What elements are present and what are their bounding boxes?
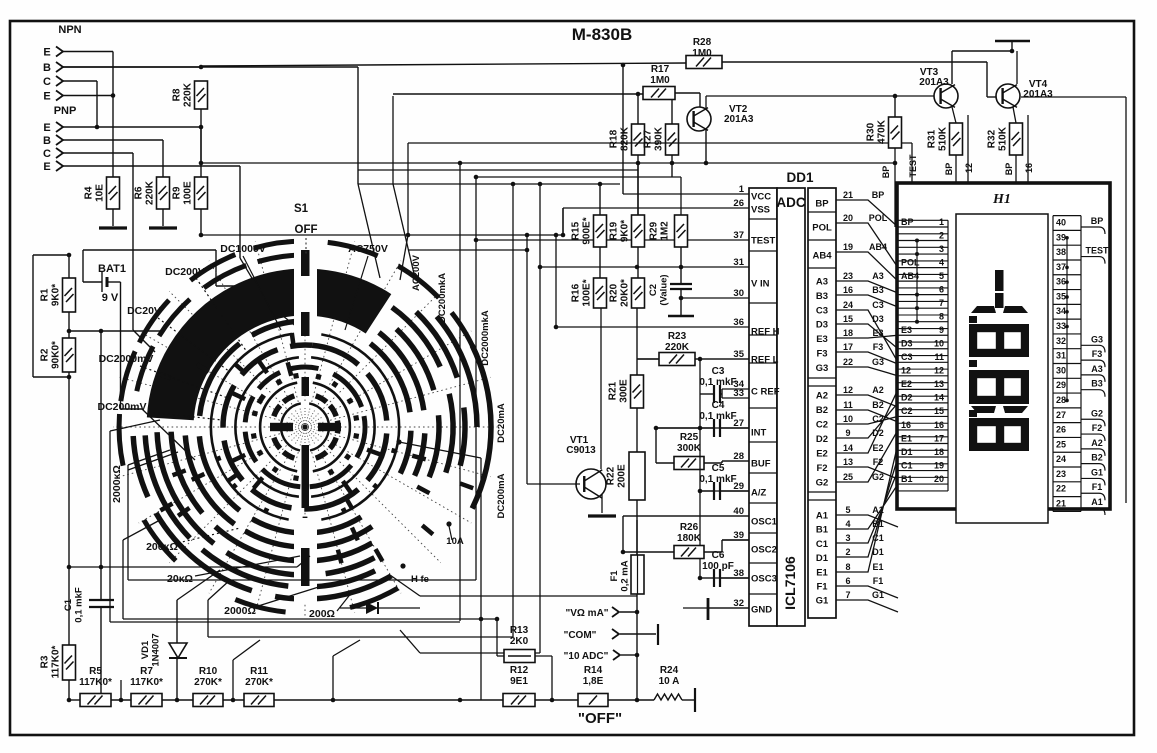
svg-text:820K: 820K bbox=[620, 126, 631, 151]
svg-text:9K0*: 9K0* bbox=[51, 284, 62, 306]
svg-text:11: 11 bbox=[843, 400, 853, 410]
svg-text:C3: C3 bbox=[712, 366, 725, 377]
svg-text:B3: B3 bbox=[816, 291, 828, 302]
svg-text:R13: R13 bbox=[510, 625, 529, 636]
svg-text:20K0*: 20K0* bbox=[620, 279, 631, 307]
svg-text:BP: BP bbox=[815, 199, 829, 210]
svg-text:E: E bbox=[43, 122, 50, 134]
svg-text:AB4: AB4 bbox=[869, 242, 887, 252]
svg-text:C2: C2 bbox=[648, 284, 659, 296]
svg-text:R27: R27 bbox=[643, 129, 654, 148]
svg-text:40: 40 bbox=[1056, 218, 1066, 228]
svg-text:33: 33 bbox=[1056, 321, 1066, 331]
svg-text:"VΩ mA": "VΩ mA" bbox=[565, 608, 608, 619]
svg-text:7: 7 bbox=[939, 298, 944, 308]
svg-text:INT: INT bbox=[751, 428, 767, 439]
svg-text:R28: R28 bbox=[693, 37, 712, 48]
svg-text:BP: BP bbox=[901, 217, 914, 227]
svg-text:R19: R19 bbox=[609, 221, 620, 240]
svg-text:E1: E1 bbox=[872, 562, 883, 572]
svg-text:R22: R22 bbox=[606, 466, 617, 485]
svg-text:31: 31 bbox=[1056, 351, 1066, 361]
svg-text:C5: C5 bbox=[712, 463, 725, 474]
svg-text:A1: A1 bbox=[1091, 497, 1103, 507]
svg-text:6: 6 bbox=[845, 576, 850, 586]
svg-text:OFF: OFF bbox=[295, 224, 318, 236]
svg-text:A1: A1 bbox=[816, 511, 829, 522]
svg-text:31: 31 bbox=[733, 257, 744, 268]
svg-text:G3: G3 bbox=[1091, 334, 1103, 344]
svg-text:PNP: PNP bbox=[54, 105, 77, 117]
svg-text:R9: R9 bbox=[172, 186, 183, 199]
svg-text:1N4007: 1N4007 bbox=[151, 633, 162, 666]
svg-text:G3: G3 bbox=[816, 363, 829, 374]
svg-text:R2: R2 bbox=[40, 348, 51, 361]
svg-text:B1: B1 bbox=[816, 525, 829, 536]
svg-text:DC20V: DC20V bbox=[127, 305, 161, 317]
svg-text:270K*: 270K* bbox=[245, 677, 273, 688]
svg-text:DC200mV: DC200mV bbox=[97, 401, 146, 413]
svg-text:200E: 200E bbox=[617, 464, 628, 488]
svg-text:510K: 510K bbox=[998, 126, 1009, 151]
svg-text:R18: R18 bbox=[609, 129, 620, 148]
svg-text:3: 3 bbox=[939, 244, 944, 254]
svg-text:23: 23 bbox=[843, 271, 853, 281]
svg-text:B: B bbox=[43, 135, 51, 147]
svg-text:(Value): (Value) bbox=[659, 274, 670, 305]
svg-text:TEST: TEST bbox=[908, 154, 918, 178]
svg-text:1M0: 1M0 bbox=[650, 75, 670, 86]
svg-text:R17: R17 bbox=[651, 64, 670, 75]
svg-text:10A: 10A bbox=[446, 536, 464, 547]
svg-text:17: 17 bbox=[934, 433, 944, 443]
svg-text:23: 23 bbox=[1056, 469, 1066, 479]
svg-text:DC20mA: DC20mA bbox=[496, 403, 507, 443]
svg-text:36: 36 bbox=[733, 317, 744, 328]
svg-text:D3: D3 bbox=[901, 339, 913, 349]
svg-text:D2: D2 bbox=[901, 393, 913, 403]
svg-text:B2: B2 bbox=[872, 400, 884, 410]
svg-text:270K*: 270K* bbox=[194, 677, 222, 688]
svg-text:B3: B3 bbox=[1091, 379, 1103, 389]
svg-text:220K: 220K bbox=[183, 82, 194, 107]
svg-text:R25: R25 bbox=[680, 432, 699, 443]
svg-text:18: 18 bbox=[843, 328, 853, 338]
svg-text:R6: R6 bbox=[134, 186, 145, 199]
svg-text:16: 16 bbox=[843, 285, 853, 295]
svg-text:C3: C3 bbox=[901, 352, 913, 362]
svg-text:R3: R3 bbox=[40, 655, 51, 668]
svg-text:300E: 300E bbox=[619, 379, 630, 403]
svg-text:470K: 470K bbox=[877, 119, 888, 144]
svg-text:5: 5 bbox=[845, 505, 850, 515]
svg-text:1,8E: 1,8E bbox=[583, 676, 604, 687]
svg-text:19: 19 bbox=[843, 242, 853, 252]
svg-text:R23: R23 bbox=[668, 331, 687, 342]
svg-text:10E: 10E bbox=[95, 184, 106, 202]
svg-text:16: 16 bbox=[934, 420, 944, 430]
svg-text:7: 7 bbox=[845, 590, 850, 600]
svg-text:OSC3: OSC3 bbox=[751, 574, 777, 585]
svg-text:AC750V: AC750V bbox=[348, 243, 388, 255]
svg-text:27: 27 bbox=[1056, 410, 1066, 420]
svg-text:C9013: C9013 bbox=[566, 445, 596, 456]
svg-text:13: 13 bbox=[934, 379, 944, 389]
svg-text:VSS: VSS bbox=[751, 205, 770, 216]
svg-text:16: 16 bbox=[1024, 163, 1034, 173]
svg-text:D1: D1 bbox=[901, 447, 913, 457]
svg-text:A2: A2 bbox=[872, 385, 884, 395]
svg-text:A3: A3 bbox=[816, 277, 828, 288]
svg-text:30: 30 bbox=[1056, 365, 1066, 375]
svg-text:AB4: AB4 bbox=[812, 251, 832, 262]
svg-text:26: 26 bbox=[1056, 425, 1066, 435]
svg-text:2000κΩ: 2000κΩ bbox=[111, 465, 123, 503]
svg-text:REF L: REF L bbox=[751, 355, 779, 366]
svg-text:R16: R16 bbox=[571, 283, 582, 302]
svg-text:22: 22 bbox=[843, 357, 853, 367]
svg-text:12: 12 bbox=[964, 163, 974, 173]
svg-text:F3: F3 bbox=[873, 342, 884, 352]
svg-text:20: 20 bbox=[843, 213, 853, 223]
svg-text:180K: 180K bbox=[677, 533, 702, 544]
svg-text:C4: C4 bbox=[712, 400, 725, 411]
svg-text:R32: R32 bbox=[987, 129, 998, 148]
svg-text:14: 14 bbox=[843, 443, 853, 453]
svg-text:R14: R14 bbox=[584, 665, 603, 676]
svg-text:39: 39 bbox=[1056, 232, 1066, 242]
svg-text:18: 18 bbox=[934, 447, 944, 457]
svg-text:D1: D1 bbox=[872, 547, 884, 557]
svg-text:D1: D1 bbox=[816, 553, 829, 564]
svg-text:22: 22 bbox=[1056, 484, 1066, 494]
svg-text:9 V: 9 V bbox=[102, 292, 119, 304]
svg-text:1M2: 1M2 bbox=[660, 221, 671, 241]
svg-text:S1: S1 bbox=[294, 203, 309, 215]
svg-text:C: C bbox=[43, 76, 51, 88]
svg-text:16: 16 bbox=[901, 420, 911, 430]
svg-text:8: 8 bbox=[939, 312, 944, 322]
svg-text:4: 4 bbox=[939, 257, 944, 267]
svg-text:9E1: 9E1 bbox=[510, 676, 528, 687]
svg-text:26: 26 bbox=[733, 198, 744, 209]
svg-text:C REF: C REF bbox=[751, 387, 780, 398]
svg-text:DC200V: DC200V bbox=[165, 266, 205, 278]
svg-text:5: 5 bbox=[939, 271, 944, 281]
svg-text:38: 38 bbox=[1056, 247, 1066, 257]
svg-text:R1: R1 bbox=[40, 288, 51, 301]
svg-text:R15: R15 bbox=[571, 221, 582, 240]
svg-text:F2: F2 bbox=[873, 457, 884, 467]
svg-text:A2: A2 bbox=[1091, 438, 1103, 448]
svg-text:28: 28 bbox=[1056, 395, 1066, 405]
svg-text:90K0*: 90K0* bbox=[51, 341, 62, 369]
svg-text:E3: E3 bbox=[901, 325, 912, 335]
svg-text:OSC2: OSC2 bbox=[751, 545, 777, 556]
svg-text:201A3: 201A3 bbox=[1023, 89, 1053, 100]
svg-text:R10: R10 bbox=[199, 666, 218, 677]
svg-text:DC2000mkA: DC2000mkA bbox=[480, 310, 491, 366]
svg-text:C6: C6 bbox=[712, 550, 725, 561]
svg-text:R21: R21 bbox=[608, 381, 619, 400]
svg-text:BP: BP bbox=[1091, 216, 1104, 226]
svg-text:R5: R5 bbox=[89, 666, 102, 677]
svg-text:A2: A2 bbox=[816, 391, 828, 402]
svg-text:R20: R20 bbox=[609, 283, 620, 302]
svg-text:20κΩ: 20κΩ bbox=[167, 573, 193, 585]
svg-text:GND: GND bbox=[751, 605, 772, 616]
svg-text:F2: F2 bbox=[816, 463, 827, 474]
svg-text:F1: F1 bbox=[816, 582, 828, 593]
svg-text:37: 37 bbox=[1056, 262, 1066, 272]
svg-text:19: 19 bbox=[934, 460, 944, 470]
svg-text:30: 30 bbox=[733, 288, 744, 299]
svg-text:A1: A1 bbox=[872, 505, 884, 515]
svg-text:8: 8 bbox=[845, 562, 850, 572]
svg-text:AC200V: AC200V bbox=[411, 254, 422, 291]
svg-text:220K: 220K bbox=[145, 180, 156, 205]
svg-text:M-830B: M-830B bbox=[572, 25, 632, 44]
svg-text:D2: D2 bbox=[872, 428, 884, 438]
svg-text:V IN: V IN bbox=[751, 279, 770, 290]
svg-text:G1: G1 bbox=[816, 596, 829, 607]
svg-text:B: B bbox=[43, 62, 51, 74]
svg-text:9: 9 bbox=[939, 325, 944, 335]
svg-text:E: E bbox=[43, 161, 50, 173]
svg-text:25: 25 bbox=[1056, 439, 1066, 449]
svg-text:2K0: 2K0 bbox=[510, 636, 529, 647]
svg-text:3: 3 bbox=[845, 533, 850, 543]
svg-text:TEST: TEST bbox=[751, 236, 775, 247]
svg-text:13: 13 bbox=[843, 457, 853, 467]
svg-text:117K0*: 117K0* bbox=[130, 677, 163, 688]
svg-text:E1: E1 bbox=[901, 433, 912, 443]
svg-text:G1: G1 bbox=[1091, 467, 1103, 477]
svg-text:C: C bbox=[43, 148, 51, 160]
svg-text:E1: E1 bbox=[816, 567, 828, 578]
svg-text:F3: F3 bbox=[816, 349, 827, 360]
svg-text:32: 32 bbox=[1056, 336, 1066, 346]
svg-text:1: 1 bbox=[739, 184, 745, 195]
svg-text:BP: BP bbox=[944, 163, 954, 176]
svg-text:D2: D2 bbox=[816, 434, 828, 445]
svg-text:BP: BP bbox=[881, 166, 891, 179]
svg-text:ICL7106: ICL7106 bbox=[782, 556, 798, 610]
svg-text:14: 14 bbox=[934, 393, 944, 403]
svg-text:C2: C2 bbox=[901, 406, 913, 416]
svg-text:R11: R11 bbox=[250, 666, 268, 677]
svg-text:10 A: 10 A bbox=[659, 676, 680, 687]
svg-text:F1: F1 bbox=[873, 576, 884, 586]
svg-text:F1: F1 bbox=[609, 570, 620, 582]
svg-text:117K0*: 117K0* bbox=[51, 645, 62, 678]
svg-text:R26: R26 bbox=[680, 522, 699, 533]
svg-text:BUF: BUF bbox=[751, 459, 771, 470]
svg-text:G2: G2 bbox=[872, 472, 884, 482]
svg-text:510K: 510K bbox=[938, 126, 949, 151]
svg-text:A3: A3 bbox=[872, 271, 884, 281]
svg-text:VD1: VD1 bbox=[140, 640, 151, 659]
svg-text:220K: 220K bbox=[665, 342, 690, 353]
svg-text:25: 25 bbox=[843, 472, 853, 482]
svg-text:C3: C3 bbox=[816, 305, 828, 316]
svg-text:200Ω: 200Ω bbox=[309, 608, 335, 620]
svg-text:21: 21 bbox=[1056, 499, 1066, 509]
svg-text:E2: E2 bbox=[872, 443, 883, 453]
svg-text:0,2 mA: 0,2 mA bbox=[620, 560, 631, 591]
svg-text:DC2000mV: DC2000mV bbox=[99, 353, 154, 365]
svg-text:9K0*: 9K0* bbox=[620, 220, 631, 242]
svg-text:ADC: ADC bbox=[776, 195, 805, 210]
svg-text:0,1 mkF: 0,1 mkF bbox=[699, 411, 736, 422]
svg-text:24: 24 bbox=[1056, 454, 1066, 464]
svg-text:10: 10 bbox=[843, 414, 853, 424]
svg-text:R8: R8 bbox=[172, 88, 183, 101]
svg-text:201A3: 201A3 bbox=[919, 77, 949, 88]
svg-text:34: 34 bbox=[1056, 306, 1066, 316]
svg-text:117K0*: 117K0* bbox=[79, 677, 112, 688]
svg-text:C1: C1 bbox=[901, 460, 913, 470]
svg-text:DC200mA: DC200mA bbox=[496, 473, 507, 518]
svg-text:A/Z: A/Z bbox=[751, 488, 767, 499]
svg-text:17: 17 bbox=[843, 342, 853, 352]
svg-text:OSC1: OSC1 bbox=[751, 517, 778, 528]
svg-text:AB4: AB4 bbox=[901, 271, 919, 281]
svg-text:C1: C1 bbox=[872, 533, 884, 543]
svg-text:900E*: 900E* bbox=[582, 217, 593, 244]
svg-text:0,1 mkF: 0,1 mkF bbox=[74, 587, 85, 623]
svg-text:100E*: 100E* bbox=[582, 279, 593, 306]
svg-text:POL: POL bbox=[812, 223, 832, 234]
svg-text:300K: 300K bbox=[677, 443, 702, 454]
svg-text:E: E bbox=[43, 91, 50, 103]
svg-text:4: 4 bbox=[845, 519, 850, 529]
svg-text:C1: C1 bbox=[63, 598, 74, 611]
svg-text:G1: G1 bbox=[872, 590, 884, 600]
svg-text:R24: R24 bbox=[660, 665, 679, 676]
svg-text:E2: E2 bbox=[816, 449, 828, 460]
svg-text:100 pF: 100 pF bbox=[702, 561, 734, 572]
svg-text:0,1 mkF: 0,1 mkF bbox=[699, 377, 736, 388]
svg-text:F1: F1 bbox=[1092, 482, 1103, 492]
svg-text:"COM": "COM" bbox=[564, 630, 597, 641]
svg-text:E2: E2 bbox=[901, 379, 912, 389]
svg-text:POL: POL bbox=[869, 213, 888, 223]
svg-text:201A3: 201A3 bbox=[724, 114, 754, 125]
svg-text:37: 37 bbox=[733, 230, 744, 241]
svg-text:21: 21 bbox=[843, 190, 853, 200]
svg-text:NPN: NPN bbox=[58, 24, 81, 36]
svg-text:B2: B2 bbox=[1091, 453, 1103, 463]
svg-text:200κΩ: 200κΩ bbox=[146, 541, 178, 553]
svg-text:G3: G3 bbox=[872, 357, 884, 367]
svg-text:D3: D3 bbox=[816, 320, 828, 331]
svg-text:2: 2 bbox=[939, 230, 944, 240]
svg-text:D3: D3 bbox=[872, 314, 884, 324]
svg-text:B1: B1 bbox=[901, 474, 913, 484]
svg-text:G2: G2 bbox=[816, 478, 829, 489]
svg-text:390K: 390K bbox=[654, 126, 665, 151]
svg-text:B3: B3 bbox=[872, 285, 884, 295]
svg-text:R29: R29 bbox=[649, 221, 660, 240]
svg-text:F3: F3 bbox=[1092, 349, 1103, 359]
svg-text:24: 24 bbox=[843, 300, 853, 310]
svg-text:11: 11 bbox=[934, 352, 944, 362]
svg-text:DD1: DD1 bbox=[786, 170, 813, 185]
svg-text:12: 12 bbox=[934, 366, 944, 376]
svg-text:C3: C3 bbox=[872, 300, 884, 310]
svg-text:10: 10 bbox=[934, 339, 944, 349]
svg-text:C1: C1 bbox=[816, 539, 829, 550]
svg-text:DC200mkA: DC200mkA bbox=[437, 273, 448, 323]
svg-text:"10 ADC": "10 ADC" bbox=[564, 651, 609, 662]
svg-text:G2: G2 bbox=[1091, 408, 1103, 418]
svg-text:36: 36 bbox=[1056, 277, 1066, 287]
svg-text:R4: R4 bbox=[84, 186, 95, 199]
svg-text:H1: H1 bbox=[992, 192, 1011, 207]
svg-text:"OFF": "OFF" bbox=[578, 710, 622, 727]
svg-text:R7: R7 bbox=[140, 666, 153, 677]
svg-text:E: E bbox=[43, 47, 50, 59]
svg-text:REF H: REF H bbox=[751, 327, 780, 338]
svg-text:BP: BP bbox=[872, 190, 885, 200]
svg-text:9: 9 bbox=[845, 428, 850, 438]
svg-text:2: 2 bbox=[845, 547, 850, 557]
svg-text:E3: E3 bbox=[816, 334, 828, 345]
svg-text:15: 15 bbox=[843, 314, 853, 324]
svg-text:12: 12 bbox=[843, 385, 853, 395]
svg-text:1: 1 bbox=[939, 217, 944, 227]
svg-text:BP: BP bbox=[1004, 163, 1014, 176]
svg-text:R30: R30 bbox=[866, 122, 877, 141]
svg-text:2000Ω: 2000Ω bbox=[224, 605, 256, 617]
svg-text:F2: F2 bbox=[1092, 423, 1103, 433]
svg-text:C2: C2 bbox=[816, 420, 828, 431]
svg-text:R12: R12 bbox=[510, 665, 529, 676]
svg-text:VCC: VCC bbox=[751, 192, 771, 203]
svg-text:TEST: TEST bbox=[1085, 246, 1109, 256]
svg-text:A3: A3 bbox=[1091, 364, 1103, 374]
svg-text:15: 15 bbox=[934, 406, 944, 416]
svg-text:100E: 100E bbox=[183, 181, 194, 205]
svg-text:0,1 mkF: 0,1 mkF bbox=[699, 474, 736, 485]
svg-text:6: 6 bbox=[939, 284, 944, 294]
svg-text:29: 29 bbox=[1056, 380, 1066, 390]
svg-text:B2: B2 bbox=[816, 405, 828, 416]
svg-text:35: 35 bbox=[1056, 291, 1066, 301]
svg-text:DC1000V: DC1000V bbox=[220, 243, 266, 255]
svg-text:R31: R31 bbox=[927, 129, 938, 148]
svg-text:12: 12 bbox=[901, 366, 911, 376]
svg-text:20: 20 bbox=[934, 474, 944, 484]
